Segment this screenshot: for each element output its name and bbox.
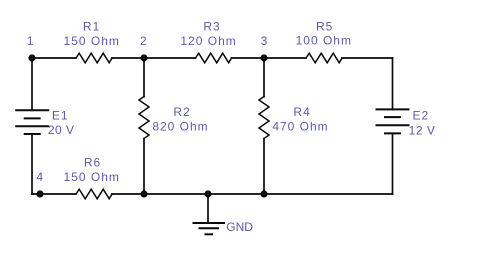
battery E2 [376, 109, 410, 133]
node 1 junction dot [28, 54, 35, 61]
node 2 junction dot [140, 54, 147, 61]
resistor R1 [76, 53, 112, 63]
node 4 junction dot [36, 190, 43, 197]
resistor R4 [259, 97, 269, 139]
wire R4 branch upper [263, 58, 265, 97]
resistor R3 [196, 53, 232, 63]
wire top R3 to node3 [232, 57, 265, 59]
svg-text:150 Ohm: 150 Ohm [64, 34, 120, 48]
svg-text:4: 4 [36, 170, 43, 184]
ground [193, 223, 226, 234]
svg-text:150 Ohm: 150 Ohm [64, 170, 120, 184]
wire left branch upper [31, 58, 33, 110]
wire ground stub [207, 194, 209, 223]
junction dot ground [204, 190, 211, 197]
wire R2 branch lower [143, 139, 145, 195]
node 3 junction dot [260, 54, 267, 61]
junction dot bottom R4 [260, 190, 267, 197]
svg-text:R5: R5 [316, 20, 333, 34]
svg-text:3: 3 [261, 34, 268, 48]
wire R4 branch lower [263, 139, 265, 195]
wire top R1 to node2 [112, 57, 144, 59]
battery E1 [15, 110, 49, 134]
svg-text:820 Ohm: 820 Ohm [152, 120, 208, 134]
svg-text:E2: E2 [413, 108, 430, 122]
svg-text:20 V: 20 V [48, 123, 75, 137]
junction dot bottom R2 [140, 190, 147, 197]
wire top node1 to R1 [32, 57, 76, 59]
svg-text:R3: R3 [203, 20, 220, 34]
wire top R5 to right corner [342, 57, 393, 59]
svg-text:1: 1 [27, 34, 34, 48]
wire right branch upper [392, 58, 394, 109]
wire bottom node4 to R6 [32, 193, 76, 195]
svg-text:12 V: 12 V [409, 123, 436, 137]
wire bottom R6 to right corner [112, 193, 393, 195]
svg-text:120 Ohm: 120 Ohm [180, 34, 236, 48]
resistor R6 [76, 189, 112, 199]
svg-text:R1: R1 [83, 20, 100, 34]
svg-text:R6: R6 [84, 155, 101, 169]
svg-text:E1: E1 [52, 108, 69, 122]
svg-text:100 Ohm: 100 Ohm [296, 33, 352, 47]
wire R2 branch upper [143, 58, 145, 97]
svg-text:2: 2 [140, 34, 147, 48]
wire top node3 to R5 [264, 57, 306, 59]
svg-text:R4: R4 [293, 105, 310, 119]
svg-text:470 Ohm: 470 Ohm [272, 120, 328, 134]
wire right branch lower [392, 133, 394, 194]
svg-text:GND: GND [226, 220, 253, 234]
wire left branch lower [31, 134, 33, 194]
resistor R5 [306, 53, 342, 63]
resistor R2 [139, 97, 149, 139]
svg-text:R2: R2 [173, 105, 190, 119]
wire top node2 to R3 [144, 57, 196, 59]
